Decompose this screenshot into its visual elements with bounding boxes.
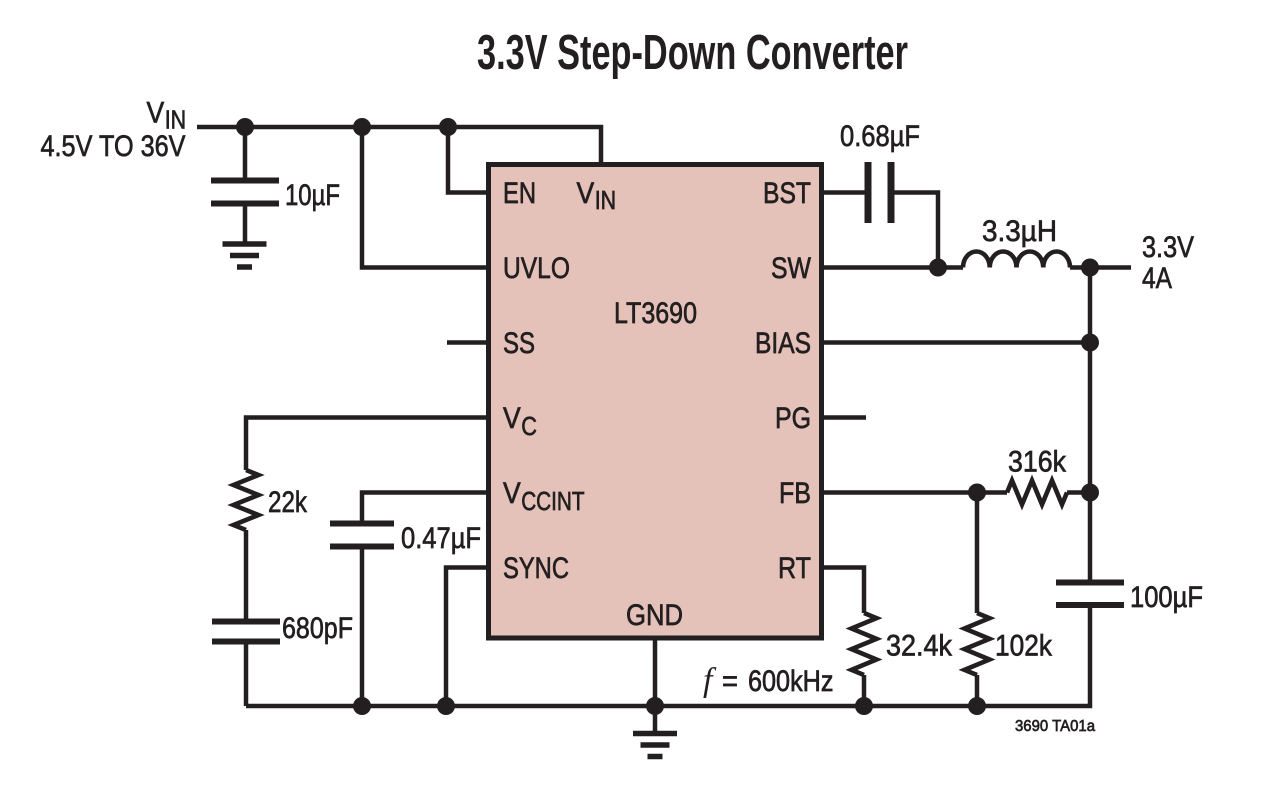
resistor R1 22k xyxy=(234,470,259,530)
wire RT net xyxy=(822,568,864,614)
svg-text:UVLO: UVLO xyxy=(503,252,570,285)
wire R4 to rail xyxy=(975,675,980,706)
junction R3 bus xyxy=(1081,484,1099,502)
wire output bus xyxy=(1088,268,1093,580)
svg-text:3.3V: 3.3V xyxy=(1142,231,1194,264)
svg-text:102k: 102k xyxy=(995,630,1053,663)
wire FB net xyxy=(822,490,1007,495)
junction R4 rail xyxy=(968,697,986,715)
svg-text:SYNC: SYNC xyxy=(503,552,569,585)
junction BIAS bus xyxy=(1081,334,1099,352)
junction FB xyxy=(968,484,986,502)
wire C3 to rail xyxy=(360,547,365,707)
junction R2 rail xyxy=(855,697,873,715)
inductor L1 3.3µH xyxy=(963,252,1070,268)
svg-text:680pF: 680pF xyxy=(282,612,353,645)
svg-text:SW: SW xyxy=(771,252,812,285)
svg-text:22k: 22k xyxy=(268,486,308,519)
junction at C1 xyxy=(236,118,254,136)
wire PG stub xyxy=(822,415,866,420)
svg-text:GND: GND xyxy=(626,599,683,632)
svg-text:BST: BST xyxy=(763,177,811,210)
resistor R3 316k xyxy=(1007,481,1067,505)
svg-text:0.68µF: 0.68µF xyxy=(840,120,920,153)
svg-text:PG: PG xyxy=(775,402,811,435)
svg-text:4A: 4A xyxy=(1142,262,1172,295)
wire ground rail xyxy=(246,605,1090,707)
svg-text:10µF: 10µF xyxy=(285,179,340,212)
svg-text:4.5V TO 36V: 4.5V TO 36V xyxy=(41,130,186,163)
wire C4 to SW xyxy=(895,193,939,268)
svg-text:EN: EN xyxy=(503,177,536,210)
svg-text:3.3V Step-Down Converter: 3.3V Step-Down Converter xyxy=(477,26,908,80)
wire BST lead xyxy=(822,190,865,195)
svg-text:FB: FB xyxy=(779,477,811,510)
svg-text:RT: RT xyxy=(778,552,811,585)
junction UVLO feed xyxy=(353,118,371,136)
capacitor C4 0.68µF xyxy=(865,162,872,223)
wire VC net xyxy=(246,418,488,471)
junction EN feed xyxy=(439,118,457,136)
wire output xyxy=(1070,265,1131,270)
wire UVLO feed xyxy=(362,127,488,268)
wire R2 to rail xyxy=(862,675,867,706)
capacitor C5 100µF xyxy=(1056,580,1124,586)
svg-text:VIN: VIN xyxy=(147,97,187,135)
ground symbol xyxy=(633,731,677,737)
wire SYNC to rail xyxy=(446,568,488,707)
wire R4 top lead xyxy=(975,493,980,614)
svg-text:SS: SS xyxy=(503,327,535,360)
junction L1 out xyxy=(1081,259,1099,277)
wire R3 to bus xyxy=(1067,490,1090,495)
svg-text:LT3690: LT3690 xyxy=(614,297,697,330)
junction C3 rail xyxy=(353,697,371,715)
wire VCCINT net xyxy=(362,493,488,521)
svg-text:BIAS: BIAS xyxy=(755,327,811,360)
wire GND pin xyxy=(653,638,658,706)
capacitor C2 680pF xyxy=(212,619,280,625)
svg-text:0.47µF: 0.47µF xyxy=(401,522,481,555)
wire SS stub xyxy=(447,340,488,345)
svg-text:316k: 316k xyxy=(1008,446,1067,479)
capacitor C3 0.47µF xyxy=(330,521,394,527)
svg-text:=: = xyxy=(722,665,738,698)
junction SYNC rail xyxy=(437,697,455,715)
resistor R4 102k xyxy=(965,613,990,675)
svg-text:3690 TA01a: 3690 TA01a xyxy=(1015,718,1095,735)
wire R1 to C2 xyxy=(244,530,249,619)
wire SW net xyxy=(822,265,963,270)
svg-text:f: f xyxy=(703,662,717,699)
wire EN feed xyxy=(448,127,488,193)
svg-text:32.4k: 32.4k xyxy=(886,630,953,663)
junction SW xyxy=(929,259,947,277)
wire BIAS net xyxy=(822,340,1090,345)
svg-text:600kHz: 600kHz xyxy=(748,665,834,698)
svg-text:3.3µH: 3.3µH xyxy=(982,215,1057,248)
capacitor C1 10µF xyxy=(243,127,248,178)
wire C2 to rail xyxy=(244,645,249,707)
wire to ground xyxy=(653,706,658,732)
svg-text:100µF: 100µF xyxy=(1130,581,1203,614)
op-amp U1 LT3690 IC body xyxy=(489,165,822,639)
resistor R2 32.4k xyxy=(852,613,877,675)
junction GND rail xyxy=(646,697,664,715)
ground below C1 xyxy=(223,241,267,247)
wire VIN rail xyxy=(197,127,601,164)
